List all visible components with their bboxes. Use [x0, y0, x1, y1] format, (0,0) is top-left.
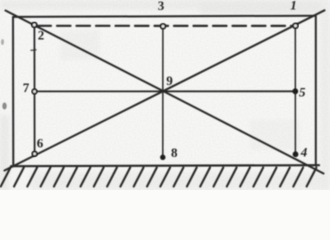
paper background: [0, 0, 330, 190]
node 8: [160, 155, 165, 160]
frame border top: [14, 16, 316, 17]
diagonal 1-9-6: [5, 10, 325, 170]
right column 1-5-4: [294, 28, 296, 153]
node 5: [292, 88, 298, 94]
tick artifact on left column: [31, 49, 36, 52]
dashed top chord 2-3-1: [38, 25, 294, 27]
scan speck left upper: [1, 39, 4, 45]
frame border left: [12, 17, 14, 166]
ground hatching: [1, 168, 317, 187]
mid chord 7-9-5: [37, 90, 293, 92]
scan speck left edge: [2, 103, 6, 110]
frame border right: [315, 16, 317, 166]
left column 2-7-6: [33, 28, 35, 152]
center vertical 3-9-8: [162, 29, 164, 156]
diagonal 2-9-4: [6, 11, 324, 174]
node 2: [32, 23, 37, 28]
node 6: [32, 152, 37, 157]
node 1: [293, 23, 298, 28]
node 4: [293, 151, 299, 157]
node 7: [32, 89, 37, 94]
node 3: [161, 24, 166, 29]
ground line: [11, 165, 319, 166]
